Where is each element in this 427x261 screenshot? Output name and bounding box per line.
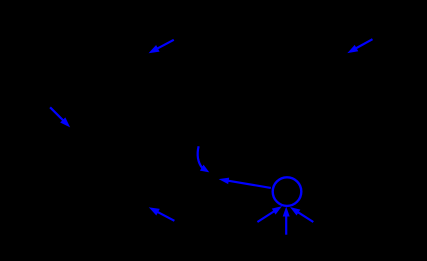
arrow E (horizontal, from circle pointing left) xyxy=(220,178,270,188)
arrow H (into circle from below) xyxy=(283,208,289,235)
arrow C (left side, pointing down-right) xyxy=(50,107,69,126)
circle node (hub) xyxy=(273,177,302,206)
arrow G (into circle from lower-left) xyxy=(257,207,280,222)
arrow B (top-right, pointing down-left) xyxy=(349,39,373,52)
curved arrow D (small curve, head pointing down-right) xyxy=(198,146,208,171)
arrow A (top-center, pointing down-left) xyxy=(150,40,174,53)
arrow F (bottom-center, pointing up-left) xyxy=(150,208,174,221)
arrow I (into circle from lower-right) xyxy=(291,208,313,222)
